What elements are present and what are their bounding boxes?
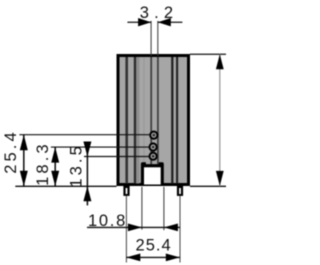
svg-text:18.3: 18.3 xyxy=(34,141,52,186)
notch right extension line xyxy=(163,187,165,230)
hole circle 2 xyxy=(150,143,157,150)
top dim extension line left xyxy=(150,21,152,56)
svg-text:3.2: 3.2 xyxy=(140,4,179,22)
dim line 13.5 xyxy=(86,142,88,205)
bottom dim line 25.4 xyxy=(126,256,180,258)
fin line 4 xyxy=(157,57,159,184)
svg-text:13.5: 13.5 xyxy=(68,143,86,188)
notch left extension line xyxy=(141,187,143,230)
hole circle 3 xyxy=(150,153,157,160)
fin line 2 xyxy=(134,57,136,184)
right dim top line xyxy=(190,53,226,55)
svg-text:25.4: 25.4 xyxy=(2,129,20,174)
svg-text:25.4: 25.4 xyxy=(136,237,172,255)
notch interior xyxy=(144,167,161,184)
fin line 3 xyxy=(150,57,152,184)
dim line 25.4 left xyxy=(23,135,25,187)
fin line 5 xyxy=(171,57,173,184)
fin line 1 xyxy=(125,57,128,184)
bottom reference line right xyxy=(190,185,226,187)
extension line B (hole 2) xyxy=(51,146,149,148)
extension line C (hole 3) xyxy=(84,156,149,158)
svg-text:10.8: 10.8 xyxy=(88,212,127,230)
bottom reference line left xyxy=(15,185,116,187)
dim line 18.3 xyxy=(54,147,56,186)
right dim line xyxy=(219,54,221,186)
extension line A (hole 1) xyxy=(19,134,150,136)
top dim arrow left xyxy=(138,18,151,26)
fin faint line xyxy=(143,57,145,184)
left pin xyxy=(123,185,129,196)
right pin centre extension line xyxy=(179,196,181,263)
fin line 6 xyxy=(176,57,178,184)
top dim line left segment xyxy=(127,21,151,23)
fin shade band xyxy=(136,57,139,184)
top dim extension line right xyxy=(157,21,159,56)
right pin xyxy=(177,185,183,196)
bottom dim line 10.8 xyxy=(87,226,180,228)
top dim arrow right xyxy=(158,18,171,26)
notch outline xyxy=(141,162,164,184)
heatsink body xyxy=(118,56,189,185)
top dim line right segment xyxy=(158,21,183,23)
hole circle 1 xyxy=(150,132,157,139)
left pin centre extension line xyxy=(125,196,127,263)
